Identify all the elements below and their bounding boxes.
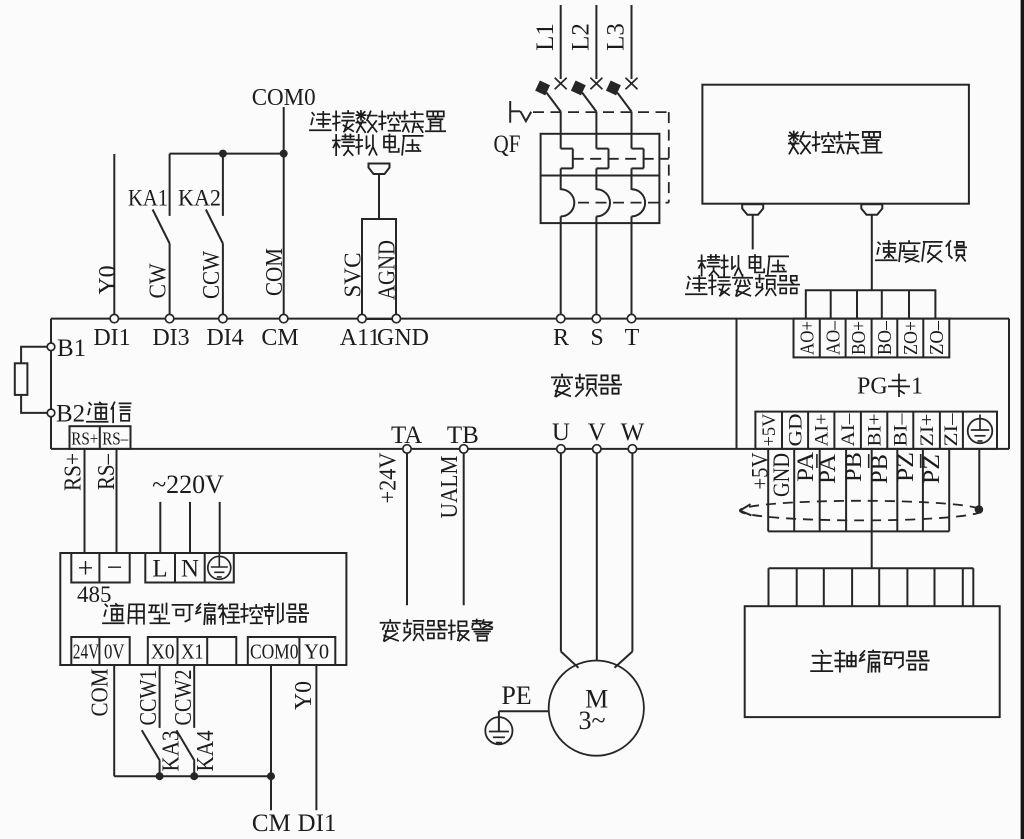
svg-text:KA4: KA4 — [193, 731, 219, 772]
svg-text:X1: X1 — [181, 640, 204, 664]
svg-text:L2: L2 — [567, 23, 594, 51]
svg-text:B2: B2 — [56, 401, 85, 428]
svg-text:CW: CW — [145, 263, 171, 298]
svg-text:AO+: AO+ — [796, 321, 818, 355]
svg-text:RS–: RS– — [94, 453, 120, 490]
svg-text:Y0: Y0 — [304, 640, 329, 664]
svg-text:GND: GND — [377, 325, 429, 351]
svg-text:PB: PB — [867, 454, 892, 484]
svg-text:485: 485 — [77, 582, 112, 607]
svg-text:DI1: DI1 — [298, 810, 337, 837]
svg-text:KA3: KA3 — [159, 731, 185, 772]
svg-text:W: W — [621, 419, 645, 446]
svg-text:PZ: PZ — [893, 452, 918, 482]
svg-text:24V: 24V — [73, 640, 100, 664]
svg-text:N: N — [181, 556, 199, 583]
svg-text:UALM: UALM — [437, 456, 463, 519]
svg-text:BI–: BI– — [890, 413, 911, 447]
svg-text:RS–: RS– — [102, 428, 128, 448]
svg-text:GD: GD — [785, 414, 806, 447]
svg-text:COM: COM — [262, 248, 288, 296]
svg-text:A11: A11 — [340, 325, 380, 351]
svg-text:DI4: DI4 — [206, 325, 243, 351]
svg-text:CCW2: CCW2 — [171, 670, 197, 726]
svg-text:PZ: PZ — [919, 454, 944, 484]
svg-text:KA2: KA2 — [178, 186, 221, 211]
svg-text:ZI–: ZI– — [941, 413, 962, 447]
svg-text:RS+: RS+ — [60, 453, 86, 491]
svg-text:0V: 0V — [104, 640, 125, 664]
svg-text:CCW: CCW — [199, 251, 225, 299]
svg-text:L3: L3 — [603, 23, 630, 51]
svg-text:BI+: BI+ — [864, 414, 885, 447]
svg-text:DI1: DI1 — [93, 325, 130, 351]
svg-text:AI–: AI– — [838, 413, 859, 447]
svg-text:AI+: AI+ — [811, 414, 832, 447]
svg-text:V: V — [588, 419, 606, 446]
svg-text:AO–: AO– — [822, 320, 844, 355]
svg-text:−: − — [107, 553, 123, 584]
svg-text:PE: PE — [501, 681, 531, 710]
svg-text:3~: 3~ — [578, 706, 605, 735]
svg-text:Y0: Y0 — [291, 681, 317, 710]
svg-text:AGND: AGND — [374, 240, 400, 300]
svg-text:+24V: +24V — [375, 452, 401, 504]
svg-text:ZO–: ZO– — [926, 320, 948, 355]
svg-text:1: 1 — [911, 374, 923, 400]
svg-text:Y0: Y0 — [95, 265, 121, 294]
svg-text:B1: B1 — [57, 335, 86, 362]
svg-text:+: + — [78, 554, 94, 585]
svg-text:CM: CM — [261, 325, 298, 351]
svg-text:CM: CM — [252, 810, 291, 837]
svg-text:COM: COM — [87, 669, 113, 717]
svg-text:X0: X0 — [151, 640, 175, 664]
svg-text:R: R — [553, 325, 569, 351]
svg-text:U: U — [552, 419, 570, 446]
svg-text:COM0: COM0 — [252, 85, 316, 111]
svg-text:L1: L1 — [532, 23, 559, 51]
svg-text:S: S — [590, 325, 603, 351]
svg-text:CCW1: CCW1 — [136, 670, 162, 726]
svg-text:SVC: SVC — [340, 253, 366, 298]
svg-text:PG: PG — [857, 374, 888, 400]
svg-text:L: L — [152, 556, 167, 583]
svg-text:PA: PA — [815, 454, 840, 484]
svg-text:+5V: +5V — [759, 413, 780, 446]
svg-text:~220V: ~220V — [152, 470, 224, 499]
svg-text:DI3: DI3 — [152, 325, 189, 351]
svg-text:BO+: BO+ — [848, 321, 870, 355]
svg-text:QF: QF — [494, 131, 521, 158]
svg-text:ZO+: ZO+ — [900, 321, 922, 355]
svg-text:ZI+: ZI+ — [917, 414, 938, 447]
svg-text:GND: GND — [769, 453, 794, 497]
svg-text:RS+: RS+ — [71, 428, 98, 448]
svg-text:T: T — [625, 325, 640, 351]
svg-text:BO–: BO– — [874, 320, 896, 355]
svg-text:KA1: KA1 — [128, 186, 168, 211]
svg-text:COM0: COM0 — [250, 640, 299, 664]
svg-text:PB: PB — [841, 452, 866, 482]
